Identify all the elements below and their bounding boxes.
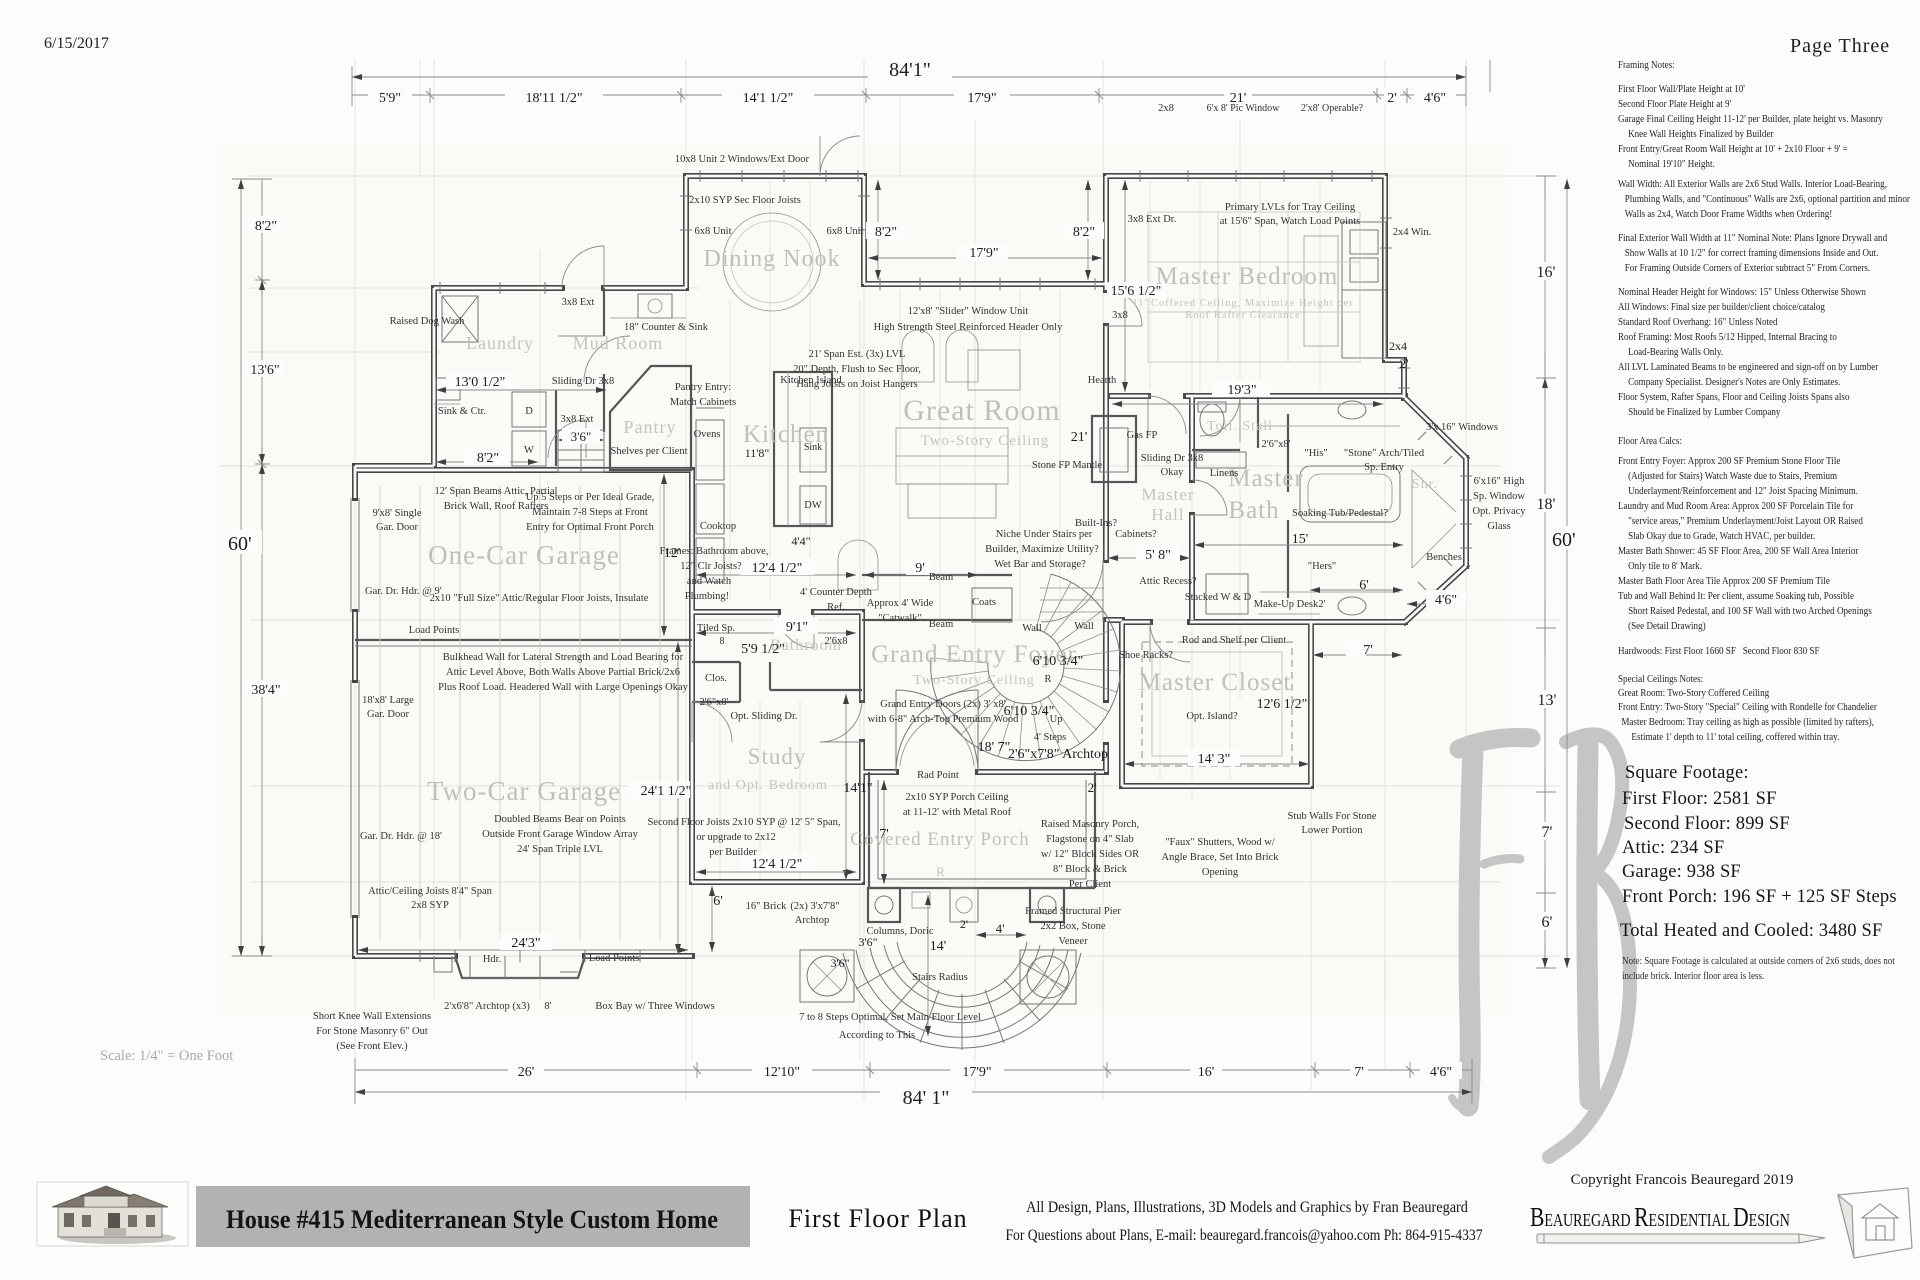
svg-text:9': 9' <box>915 561 925 576</box>
toilet in toil stall <box>1200 404 1224 436</box>
svg-text:Plumbing Walls, and "Continuou: Plumbing Walls, and "Continuous" Walls a… <box>1625 193 1911 205</box>
svg-text:Primary LVLs for Tray Ceiling: Primary LVLs for Tray Ceiling <box>1225 202 1356 213</box>
svg-text:3'6": 3'6" <box>830 956 849 970</box>
svg-text:2': 2' <box>1400 356 1409 371</box>
svg-text:Columns, Doric: Columns, Doric <box>866 926 933 937</box>
svg-text:Rad Point: Rad Point <box>917 770 959 781</box>
svg-text:Wall: Wall <box>1022 623 1042 634</box>
svg-text:8'2": 8'2" <box>875 225 897 240</box>
svg-text:Pantry Entry:: Pantry Entry: <box>675 382 731 393</box>
closet shelves dashed <box>1142 642 1292 766</box>
svg-text:13'0 1/2": 13'0 1/2" <box>455 375 506 390</box>
svg-text:7': 7' <box>1542 824 1553 841</box>
svg-text:4': 4' <box>996 921 1005 936</box>
svg-text:Wall: Wall <box>1074 621 1094 632</box>
laundry D and W boxes <box>512 392 546 427</box>
svg-text:8'2": 8'2" <box>477 451 499 466</box>
svg-text:3'6": 3'6" <box>571 429 592 444</box>
garage knee wall stubs <box>434 956 578 972</box>
svg-text:Attic Level Above, Both Walls: Attic Level Above, Both Walls Above Part… <box>446 667 680 678</box>
svg-text:Plus Roof Load. Headered Wall: Plus Roof Load. Headered Wall with Large… <box>438 682 689 693</box>
svg-text:Slab Okay due to Grade, Watch: Slab Okay due to Grade, Watch HVAC, per … <box>1628 530 1815 542</box>
svg-text:House #415 Mediterranean Style: House #415 Mediterranean Style Custom Ho… <box>226 1206 718 1234</box>
svg-text:20" Depth, Flush to Sec Floor,: 20" Depth, Flush to Sec Floor, <box>793 364 921 375</box>
svg-text:Covered Entry Porch: Covered Entry Porch <box>850 829 1029 850</box>
great room furniture (light) <box>838 330 1020 590</box>
mud room sink and counter <box>638 294 672 318</box>
svg-text:Master Closet: Master Closet <box>1139 669 1292 696</box>
interior partition walls <box>355 288 1288 888</box>
svg-text:Gar. Door: Gar. Door <box>376 522 418 533</box>
svg-text:7': 7' <box>1363 643 1373 658</box>
svg-text:13': 13' <box>1538 692 1557 709</box>
svg-text:9'x8' Single: 9'x8' Single <box>373 508 422 519</box>
svg-text:Hdr.: Hdr. <box>483 954 501 965</box>
svg-text:First Floor Wall/Plate Height: First Floor Wall/Plate Height at 10' <box>1618 83 1745 95</box>
porch inner edge <box>878 780 1086 879</box>
front entry double door arch <box>896 690 978 772</box>
svg-text:Second Floor Plate Height at 9: Second Floor Plate Height at 9' <box>1618 98 1731 110</box>
svg-text:Copyright Francois Beauregard: Copyright Francois Beauregard 2019 <box>1571 1172 1794 1188</box>
svg-text:Stacked W & D: Stacked W & D <box>1185 592 1252 603</box>
svg-text:Angle Brace, Set Into Brick: Angle Brace, Set Into Brick <box>1162 852 1280 863</box>
svg-text:17'9": 17'9" <box>969 246 998 261</box>
svg-text:Bath: Bath <box>1228 497 1279 524</box>
svg-text:84'1": 84'1" <box>889 59 931 81</box>
svg-text:Great Room: Great Room <box>903 394 1060 427</box>
footer: logo paper with house <box>1838 1188 1912 1258</box>
svg-text:2x10 SYP Porch Ceiling: 2x10 SYP Porch Ceiling <box>905 792 1009 803</box>
svg-text:Entry for Optimal Front Porch: Entry for Optimal Front Porch <box>526 522 654 533</box>
svg-text:Cabinets?: Cabinets? <box>1115 529 1157 540</box>
svg-text:Master Bedroom: Tray ceiling a: Master Bedroom: Tray ceiling as high as … <box>1621 716 1874 728</box>
makeup desk <box>1258 613 1320 615</box>
svg-text:3x8 Ext: 3x8 Ext <box>561 414 594 425</box>
svg-text:16" Brick: 16" Brick <box>746 901 787 912</box>
svg-text:Shr.: Shr. <box>1412 477 1438 492</box>
svg-text:Wet Bar and Storage?: Wet Bar and Storage? <box>994 559 1086 570</box>
svg-text:26': 26' <box>518 1065 535 1080</box>
svg-text:Doubled Beams Bear on Points: Doubled Beams Bear on Points <box>494 814 626 825</box>
svg-text:3'6": 3'6" <box>858 935 877 949</box>
svg-text:Lower Portion: Lower Portion <box>1302 825 1364 836</box>
svg-text:5'9 1/2": 5'9 1/2" <box>741 642 785 657</box>
svg-text:Hardwoods: First Floor 1660 SF: Hardwoods: First Floor 1660 SF Second Fl… <box>1618 645 1820 657</box>
svg-text:Brick Wall, Roof Rafters: Brick Wall, Roof Rafters <box>444 501 549 512</box>
svg-text:Coats: Coats <box>972 597 996 608</box>
svg-text:6'x 8' Pic Window: 6'x 8' Pic Window <box>1207 103 1281 114</box>
svg-text:Framing Notes:: Framing Notes: <box>1618 59 1675 71</box>
svg-text:Glass: Glass <box>1487 521 1510 532</box>
svg-text:Tiled Sp.: Tiled Sp. <box>697 623 735 634</box>
raised dog wash box <box>442 296 478 342</box>
master bath tub <box>1300 466 1400 522</box>
FB monogram watermark <box>1452 734 1630 1157</box>
svg-text:14'1 1/2": 14'1 1/2" <box>743 91 794 106</box>
svg-text:12" Clr Joists?: 12" Clr Joists? <box>680 561 742 572</box>
svg-text:Stone FP Mantle: Stone FP Mantle <box>1032 460 1103 471</box>
svg-text:24'3": 24'3" <box>511 936 540 951</box>
svg-text:Attic Recess?: Attic Recess? <box>1139 576 1197 587</box>
svg-text:Only tile to 8' Mark.: Only tile to 8' Mark. <box>1628 560 1702 572</box>
svg-text:w/ 12" Block Sides OR: w/ 12" Block Sides OR <box>1041 849 1139 860</box>
svg-text:"Catwalk": "Catwalk" <box>878 613 922 624</box>
svg-text:Load Points: Load Points <box>409 625 459 636</box>
svg-text:Dining Nook: Dining Nook <box>704 246 841 272</box>
svg-text:9'1": 9'1" <box>786 620 808 635</box>
svg-text:Built-Ins?: Built-Ins? <box>1075 518 1117 529</box>
top overall dimension 84'1" <box>352 60 1490 106</box>
svg-text:Master Bedroom: Master Bedroom <box>1156 263 1339 290</box>
svg-text:Shoe Racks?: Shoe Racks? <box>1119 650 1173 661</box>
garage box bay w/ three windows <box>455 956 585 978</box>
footer: house render thumbnail <box>37 1182 188 1246</box>
svg-text:Up: Up <box>1050 714 1063 725</box>
exterior walls (double-line) <box>355 176 1466 956</box>
svg-text:6': 6' <box>1359 578 1369 593</box>
svg-text:38'4": 38'4" <box>251 683 280 698</box>
svg-text:Roof Rafter Clearance: Roof Rafter Clearance <box>1185 310 1300 321</box>
svg-text:All LVL Laminated Beams to be: All LVL Laminated Beams to be engineered… <box>1618 361 1879 373</box>
svg-text:Opt. Privacy: Opt. Privacy <box>1472 506 1526 517</box>
svg-text:Clos.: Clos. <box>705 673 727 684</box>
svg-text:8'2": 8'2" <box>255 219 277 234</box>
svg-text:Final Exterior Wall Width at 1: Final Exterior Wall Width at 11" Nominal… <box>1618 232 1887 244</box>
svg-text:Raised Dog Wash: Raised Dog Wash <box>390 316 466 327</box>
svg-text:Second Floor: 899 SF: Second Floor: 899 SF <box>1624 814 1790 834</box>
svg-text:"His": "His" <box>1304 448 1327 459</box>
svg-text:First Floor Plan: First Floor Plan <box>788 1204 967 1233</box>
svg-text:Mud Room: Mud Room <box>573 333 664 353</box>
svg-text:4' Counter Depth: 4' Counter Depth <box>800 587 873 598</box>
svg-text:Sliding Dr 3x8: Sliding Dr 3x8 <box>552 376 614 387</box>
svg-text:Hall: Hall <box>1151 505 1184 524</box>
svg-text:Grand Entry Doors (2x) 3' x8': Grand Entry Doors (2x) 3' x8' <box>880 699 1005 710</box>
svg-text:18" Counter & Sink: 18" Counter & Sink <box>624 322 709 333</box>
svg-text:Study: Study <box>748 744 807 769</box>
faint construction grid <box>220 60 1560 1100</box>
svg-text:Garage Final Ceiling Height 11: Garage Final Ceiling Height 11-12' per B… <box>1618 113 1883 125</box>
svg-text:Gar. Dr. Hdr. @ 18': Gar. Dr. Hdr. @ 18' <box>360 831 442 842</box>
svg-text:Master: Master <box>1141 485 1194 504</box>
svg-text:18' 7": 18' 7" <box>978 740 1011 755</box>
svg-text:Master Bath Shower: 45 SF Floo: Master Bath Shower: 45 SF Floor Area, 20… <box>1618 545 1859 557</box>
svg-text:12'10": 12'10" <box>764 1065 800 1080</box>
linens <box>1196 452 1246 468</box>
svg-text:and Opt. Bedroom: and Opt. Bedroom <box>708 778 828 793</box>
svg-text:For Stone Masonry 6" Out: For Stone Masonry 6" Out <box>316 1026 428 1037</box>
svg-text:Builder, Maximize Utility?: Builder, Maximize Utility? <box>985 544 1099 555</box>
svg-text:6': 6' <box>1542 914 1553 931</box>
svg-text:2'6x8: 2'6x8 <box>825 636 848 647</box>
svg-text:Load Points: Load Points <box>589 953 639 964</box>
svg-text:Laundry and Mud Room Area: App: Laundry and Mud Room Area: Approx 200 SF… <box>1618 500 1854 512</box>
garage doors (openings with thin lines) <box>351 498 359 918</box>
svg-text:3'x 16" Windows: 3'x 16" Windows <box>1426 422 1498 433</box>
svg-text:6x8 Unit: 6x8 Unit <box>694 226 731 237</box>
svg-text:24'1 1/2": 24'1 1/2" <box>641 784 692 799</box>
svg-text:4'6": 4'6" <box>1435 593 1457 608</box>
svg-text:Two-Story Ceiling: Two-Story Ceiling <box>921 433 1050 449</box>
svg-text:Sink: Sink <box>804 442 822 453</box>
svg-text:Ovens: Ovens <box>694 429 721 440</box>
svg-text:(Adjusted for Stairs) Watch Wa: (Adjusted for Stairs) Watch Waste due to… <box>1628 470 1837 482</box>
svg-text:4'6": 4'6" <box>1424 91 1446 106</box>
garage bottom load point marks <box>420 950 640 962</box>
svg-text:13'6": 13'6" <box>250 363 279 378</box>
small annotations <box>313 103 1526 1052</box>
svg-text:21': 21' <box>1071 430 1088 445</box>
svg-text:Short Raised Pedestal, and 100: Short Raised Pedestal, and 100 SF Wall w… <box>1628 605 1872 617</box>
footer: pencil <box>1537 1234 1825 1243</box>
svg-text:2x4: 2x4 <box>1389 339 1407 353</box>
svg-text:4'4": 4'4" <box>791 534 810 548</box>
door arcs <box>548 136 1240 742</box>
svg-text:2': 2' <box>960 917 968 931</box>
svg-text:Master: Master <box>1228 465 1303 492</box>
svg-text:Short Knee Wall Extensions: Short Knee Wall Extensions <box>313 1011 431 1022</box>
spiral staircase <box>931 574 1121 761</box>
svg-text:High Strength Steel Reinforced: High Strength Steel Reinforced Header On… <box>874 322 1063 333</box>
svg-text:One-Car Garage: One-Car Garage <box>428 540 620 570</box>
svg-text:Niche Under Stairs per: Niche Under Stairs per <box>996 529 1093 540</box>
svg-text:Archtop: Archtop <box>795 915 829 926</box>
coats closet <box>972 588 1012 622</box>
svg-text:Flagstone on 4" Slab: Flagstone on 4" Slab <box>1046 834 1133 845</box>
svg-text:D: D <box>525 406 533 417</box>
svg-text:4' Steps: 4' Steps <box>1034 732 1067 743</box>
svg-text:per Builder: per Builder <box>709 847 757 858</box>
svg-text:6x8 Unit: 6x8 Unit <box>826 226 863 237</box>
svg-text:2x10 "Full Size" Attic/Regular: 2x10 "Full Size" Attic/Regular Floor Joi… <box>430 593 649 604</box>
svg-text:Floor Area Calcs:: Floor Area Calcs: <box>1618 435 1682 447</box>
svg-text:Two-Story Ceiling: Two-Story Ceiling <box>913 673 1034 688</box>
svg-text:First Floor: 2581 SF: First Floor: 2581 SF <box>1622 789 1777 809</box>
svg-text:3x8 Ext: 3x8 Ext <box>562 297 595 308</box>
center stair (up 5 steps) <box>558 430 604 472</box>
svg-text:2x2 Box, Stone: 2x2 Box, Stone <box>1040 921 1105 932</box>
garage interior joist lines <box>380 486 660 940</box>
svg-text:Maintain 7-8 Steps at Front: Maintain 7-8 Steps at Front <box>532 507 648 518</box>
svg-text:Great Room: Two-Story Coffered: Great Room: Two-Story Coffered Ceiling <box>1618 687 1769 699</box>
svg-text:Laundry: Laundry <box>466 333 534 353</box>
room name labels (light engraved style) <box>427 246 1339 850</box>
svg-text:at 11-12' with Metal Roof: at 11-12' with Metal Roof <box>903 807 1012 818</box>
svg-text:Hearth: Hearth <box>1088 375 1117 386</box>
svg-text:or upgrade to 2x12: or upgrade to 2x12 <box>696 832 776 843</box>
svg-text:11'8": 11'8" <box>745 446 770 460</box>
svg-text:Total Heated and Cooled: 3480: Total Heated and Cooled: 3480 SF <box>1620 921 1883 941</box>
svg-text:For Framing Outside Corners of: For Framing Outside Corners of Exterior … <box>1625 262 1870 274</box>
svg-text:Master Bath Floor Area Tile Ap: Master Bath Floor Area Tile Approx 200 S… <box>1618 575 1830 587</box>
svg-text:and Watch: and Watch <box>687 576 732 587</box>
svg-text:Front Porch: 196 SF + 125 SF S: Front Porch: 196 SF + 125 SF Steps <box>1622 887 1897 907</box>
svg-text:Load-Bearing Walls Only.: Load-Bearing Walls Only. <box>1628 346 1723 358</box>
svg-text:6/15/2017: 6/15/2017 <box>44 35 109 52</box>
svg-text:Bulkhead Wall for Lateral Stre: Bulkhead Wall for Lateral Strength and L… <box>443 652 684 663</box>
svg-text:19'3": 19'3" <box>1227 383 1256 398</box>
svg-text:15': 15' <box>1292 532 1309 547</box>
svg-text:2': 2' <box>1387 91 1397 106</box>
svg-text:2'6"x8': 2'6"x8' <box>699 697 728 708</box>
svg-text:Floor System, Rafter Spans, Fl: Floor System, Rafter Spans, Floor and Ce… <box>1618 391 1849 403</box>
svg-text:12'x8' "Slider" Window Unit: 12'x8' "Slider" Window Unit <box>908 306 1029 317</box>
svg-text:11' Coffered Ceiling, Maximize: 11' Coffered Ceiling, Maximize Height pe… <box>1132 298 1353 309</box>
svg-text:2x8 SYP: 2x8 SYP <box>411 900 449 911</box>
svg-text:(2x) 3'x7'8": (2x) 3'x7'8" <box>790 901 839 912</box>
svg-text:Make-Up Desk: Make-Up Desk <box>1254 599 1319 610</box>
straight stair treads upper right of spiral <box>1040 588 1104 612</box>
svg-text:8': 8' <box>544 1001 551 1012</box>
svg-text:Special Ceilings Notes:: Special Ceilings Notes: <box>1618 673 1703 685</box>
svg-text:Nominal Header Height for Wind: Nominal Header Height for Windows: 15" U… <box>1618 286 1866 298</box>
svg-text:Sink & Ctr.: Sink & Ctr. <box>438 406 486 417</box>
window ticks on exterior walls <box>440 170 1472 590</box>
svg-text:10x8 Unit 2 Windows/Ext Door: 10x8 Unit 2 Windows/Ext Door <box>675 154 810 165</box>
svg-text:Raised Masonry Porch,: Raised Masonry Porch, <box>1041 819 1139 830</box>
svg-text:16': 16' <box>1198 1065 1215 1080</box>
svg-text:Gas FP: Gas FP <box>1127 430 1158 441</box>
svg-text:2': 2' <box>1318 599 1325 610</box>
right dimension lines <box>1536 176 1567 968</box>
svg-text:17'9": 17'9" <box>962 1065 991 1080</box>
svg-text:14': 14' <box>930 939 947 954</box>
svg-text:Standard Roof Overhang: 16" Un: Standard Roof Overhang: 16" Unless Noted <box>1618 316 1778 328</box>
master bedroom ceiling grid <box>1148 212 1360 362</box>
porch curved steps <box>843 942 1081 1050</box>
svg-text:Gar. Door: Gar. Door <box>367 709 409 720</box>
svg-text:14'1": 14'1" <box>843 781 872 796</box>
svg-text:24' Span Triple LVL: 24' Span Triple LVL <box>517 844 603 855</box>
svg-text:Stub Walls For Stone: Stub Walls For Stone <box>1287 811 1376 822</box>
svg-text:6'10 3/4": 6'10 3/4" <box>1033 654 1084 669</box>
svg-text:Attic: 234 SF: Attic: 234 SF <box>1622 838 1724 858</box>
svg-text:"service areas," Premium Under: "service areas," Premium Underlayment/Jo… <box>1628 515 1863 527</box>
svg-text:Show Walls at 10 1/2" for corr: Show Walls at 10 1/2" for correct framin… <box>1625 247 1879 259</box>
svg-text:Opt. Island?: Opt. Island? <box>1186 711 1238 722</box>
svg-text:2x10 SYP Sec Floor Joists: 2x10 SYP Sec Floor Joists <box>689 195 801 206</box>
svg-text:12'6 1/2": 12'6 1/2" <box>1257 697 1308 712</box>
svg-text:12'4 1/2": 12'4 1/2" <box>752 561 803 576</box>
svg-text:include brick. Interior floor: include brick. Interior floor area is le… <box>1622 970 1764 982</box>
svg-text:R: R <box>1044 674 1051 685</box>
svg-text:3x8: 3x8 <box>1112 310 1128 321</box>
bottom dimension lines <box>355 1058 1472 1104</box>
svg-text:with 6-8" Arch-Top Premium Woo: with 6-8" Arch-Top Premium Wood <box>868 714 1019 725</box>
left dimension lines <box>232 179 272 956</box>
svg-text:8: 8 <box>720 636 725 647</box>
svg-text:15'6 1/2": 15'6 1/2" <box>1111 284 1162 299</box>
svg-text:R: R <box>936 864 946 879</box>
svg-text:17'9": 17'9" <box>967 91 996 106</box>
svg-text:Square Footage:: Square Footage: <box>1625 763 1749 783</box>
hearth / gas fireplace <box>1092 416 1136 482</box>
svg-text:Opt. Sliding Dr.: Opt. Sliding Dr. <box>730 711 797 722</box>
svg-text:All Design, Plans, Illustratio: All Design, Plans, Illustrations, 3D Mod… <box>1026 1200 1468 1217</box>
svg-text:8" Block & Brick: 8" Block & Brick <box>1053 864 1128 875</box>
svg-text:Benches: Benches <box>1426 552 1462 563</box>
svg-text:Estimate 1' depth to 11' total: Estimate 1' depth to 11' total ceiling, … <box>1631 731 1839 743</box>
svg-text:12'4 1/2": 12'4 1/2" <box>752 857 803 872</box>
svg-text:Wall Width: All Exterior Walls: Wall Width: All Exterior Walls are 2x6 S… <box>1618 178 1887 190</box>
svg-text:"Stone" Arch/Tiled: "Stone" Arch/Tiled <box>1344 448 1425 459</box>
svg-text:6'x16" High: 6'x16" High <box>1474 476 1526 487</box>
svg-text:Shelves per Client: Shelves per Client <box>611 446 688 457</box>
svg-text:W: W <box>524 445 534 456</box>
svg-text:Framed Structural Pier: Framed Structural Pier <box>1025 906 1121 917</box>
svg-text:2x4 Win.: 2x4 Win. <box>1393 227 1431 238</box>
svg-text:Tub and Wall Behind It: Per cl: Tub and Wall Behind It: Per client, assu… <box>1618 590 1855 602</box>
svg-text:84' 1": 84' 1" <box>903 1087 950 1109</box>
svg-text:Knee Wall Heights Finalized by: Knee Wall Heights Finalized by Builder <box>1628 128 1774 140</box>
svg-text:DW: DW <box>804 500 822 511</box>
svg-text:Pantry: Pantry <box>624 417 677 437</box>
svg-text:Company Specialist. Designer's: Company Specialist. Designer's Notes are… <box>1628 376 1840 388</box>
svg-text:Garage: 938 SF: Garage: 938 SF <box>1622 862 1741 882</box>
urns on pedestals <box>800 950 854 1002</box>
svg-text:6'10 3/4": 6'10 3/4" <box>1004 704 1055 719</box>
svg-text:Stairs Radius: Stairs Radius <box>912 972 968 983</box>
svg-text:Attic/Ceiling Joists 8'4" Span: Attic/Ceiling Joists 8'4" Span <box>368 886 492 897</box>
svg-text:2'x6'8" Archtop (x3): 2'x6'8" Archtop (x3) <box>444 1001 530 1012</box>
dining nook table <box>723 213 821 311</box>
svg-text:Cooktop: Cooktop <box>700 521 736 532</box>
svg-text:60': 60' <box>1552 529 1576 551</box>
svg-text:5'9": 5'9" <box>379 91 401 106</box>
svg-text:8'2": 8'2" <box>1073 225 1095 240</box>
svg-text:"Faux" Shutters, Wood w/: "Faux" Shutters, Wood w/ <box>1165 837 1275 848</box>
svg-text:Linens: Linens <box>1210 468 1239 479</box>
square footage block <box>1620 763 1897 941</box>
laundry counter <box>434 403 460 405</box>
svg-text:60': 60' <box>228 533 252 555</box>
svg-text:Sp. Window: Sp. Window <box>1473 491 1525 502</box>
porch piers <box>868 888 900 922</box>
bulkhead inner line <box>355 645 692 647</box>
svg-text:Roof Framing: Most Roofs 5/12: Roof Framing: Most Roofs 5/12 Hipped, In… <box>1618 331 1837 343</box>
svg-text:Note: Square Footage is calcul: Note: Square Footage is calculated at ou… <box>1622 955 1895 967</box>
svg-text:Okay: Okay <box>1161 467 1184 478</box>
svg-text:Beam: Beam <box>929 619 954 630</box>
svg-text:7 to 8 Steps Optimal, Set Main: 7 to 8 Steps Optimal, Set Main Floor Lev… <box>799 1012 981 1023</box>
svg-text:2x8: 2x8 <box>1158 103 1174 114</box>
svg-text:Front Entry: Two-Story "Specia: Front Entry: Two-Story "Special" Ceiling… <box>1618 701 1878 713</box>
svg-text:6': 6' <box>713 894 723 909</box>
framing notes column <box>1618 59 1911 743</box>
svg-text:14' 3": 14' 3" <box>1198 752 1231 767</box>
kitchen island <box>774 372 832 526</box>
svg-text:18': 18' <box>1537 496 1556 513</box>
svg-text:2': 2' <box>1088 780 1097 795</box>
svg-text:3x8 Ext Dr.: 3x8 Ext Dr. <box>1128 214 1177 225</box>
svg-text:21' Span Est. (3x) LVL: 21' Span Est. (3x) LVL <box>809 349 906 360</box>
kitchen cabinets along garage wall <box>696 408 724 582</box>
svg-text:Rod and Shelf per Client: Rod and Shelf per Client <box>1182 635 1286 646</box>
svg-text:18'11 1/2": 18'11 1/2" <box>525 91 582 106</box>
svg-text:Match Cabinets: Match Cabinets <box>670 397 736 408</box>
svg-text:Sliding Dr 3x8: Sliding Dr 3x8 <box>1141 453 1203 464</box>
svg-text:4'6": 4'6" <box>1430 1065 1452 1080</box>
svg-text:Two-Car Garage: Two-Car Garage <box>427 776 621 806</box>
svg-text:Ref.: Ref. <box>827 602 845 613</box>
svg-text:Page Three: Page Three <box>1790 35 1890 57</box>
svg-text:Box Bay w/ Three Windows: Box Bay w/ Three Windows <box>595 1001 714 1012</box>
svg-text:Second Floor Joists 2x10 SYP @: Second Floor Joists 2x10 SYP @ 12' 5" Sp… <box>647 817 840 828</box>
shower benches lines in bay <box>1412 470 1456 568</box>
svg-text:Opening: Opening <box>1202 867 1239 878</box>
svg-text:Hang Joists on Joist Hangers: Hang Joists on Joist Hangers <box>796 379 917 390</box>
svg-text:at 15'6" Span, Watch Load Poin: at 15'6" Span, Watch Load Points <box>1220 216 1360 227</box>
